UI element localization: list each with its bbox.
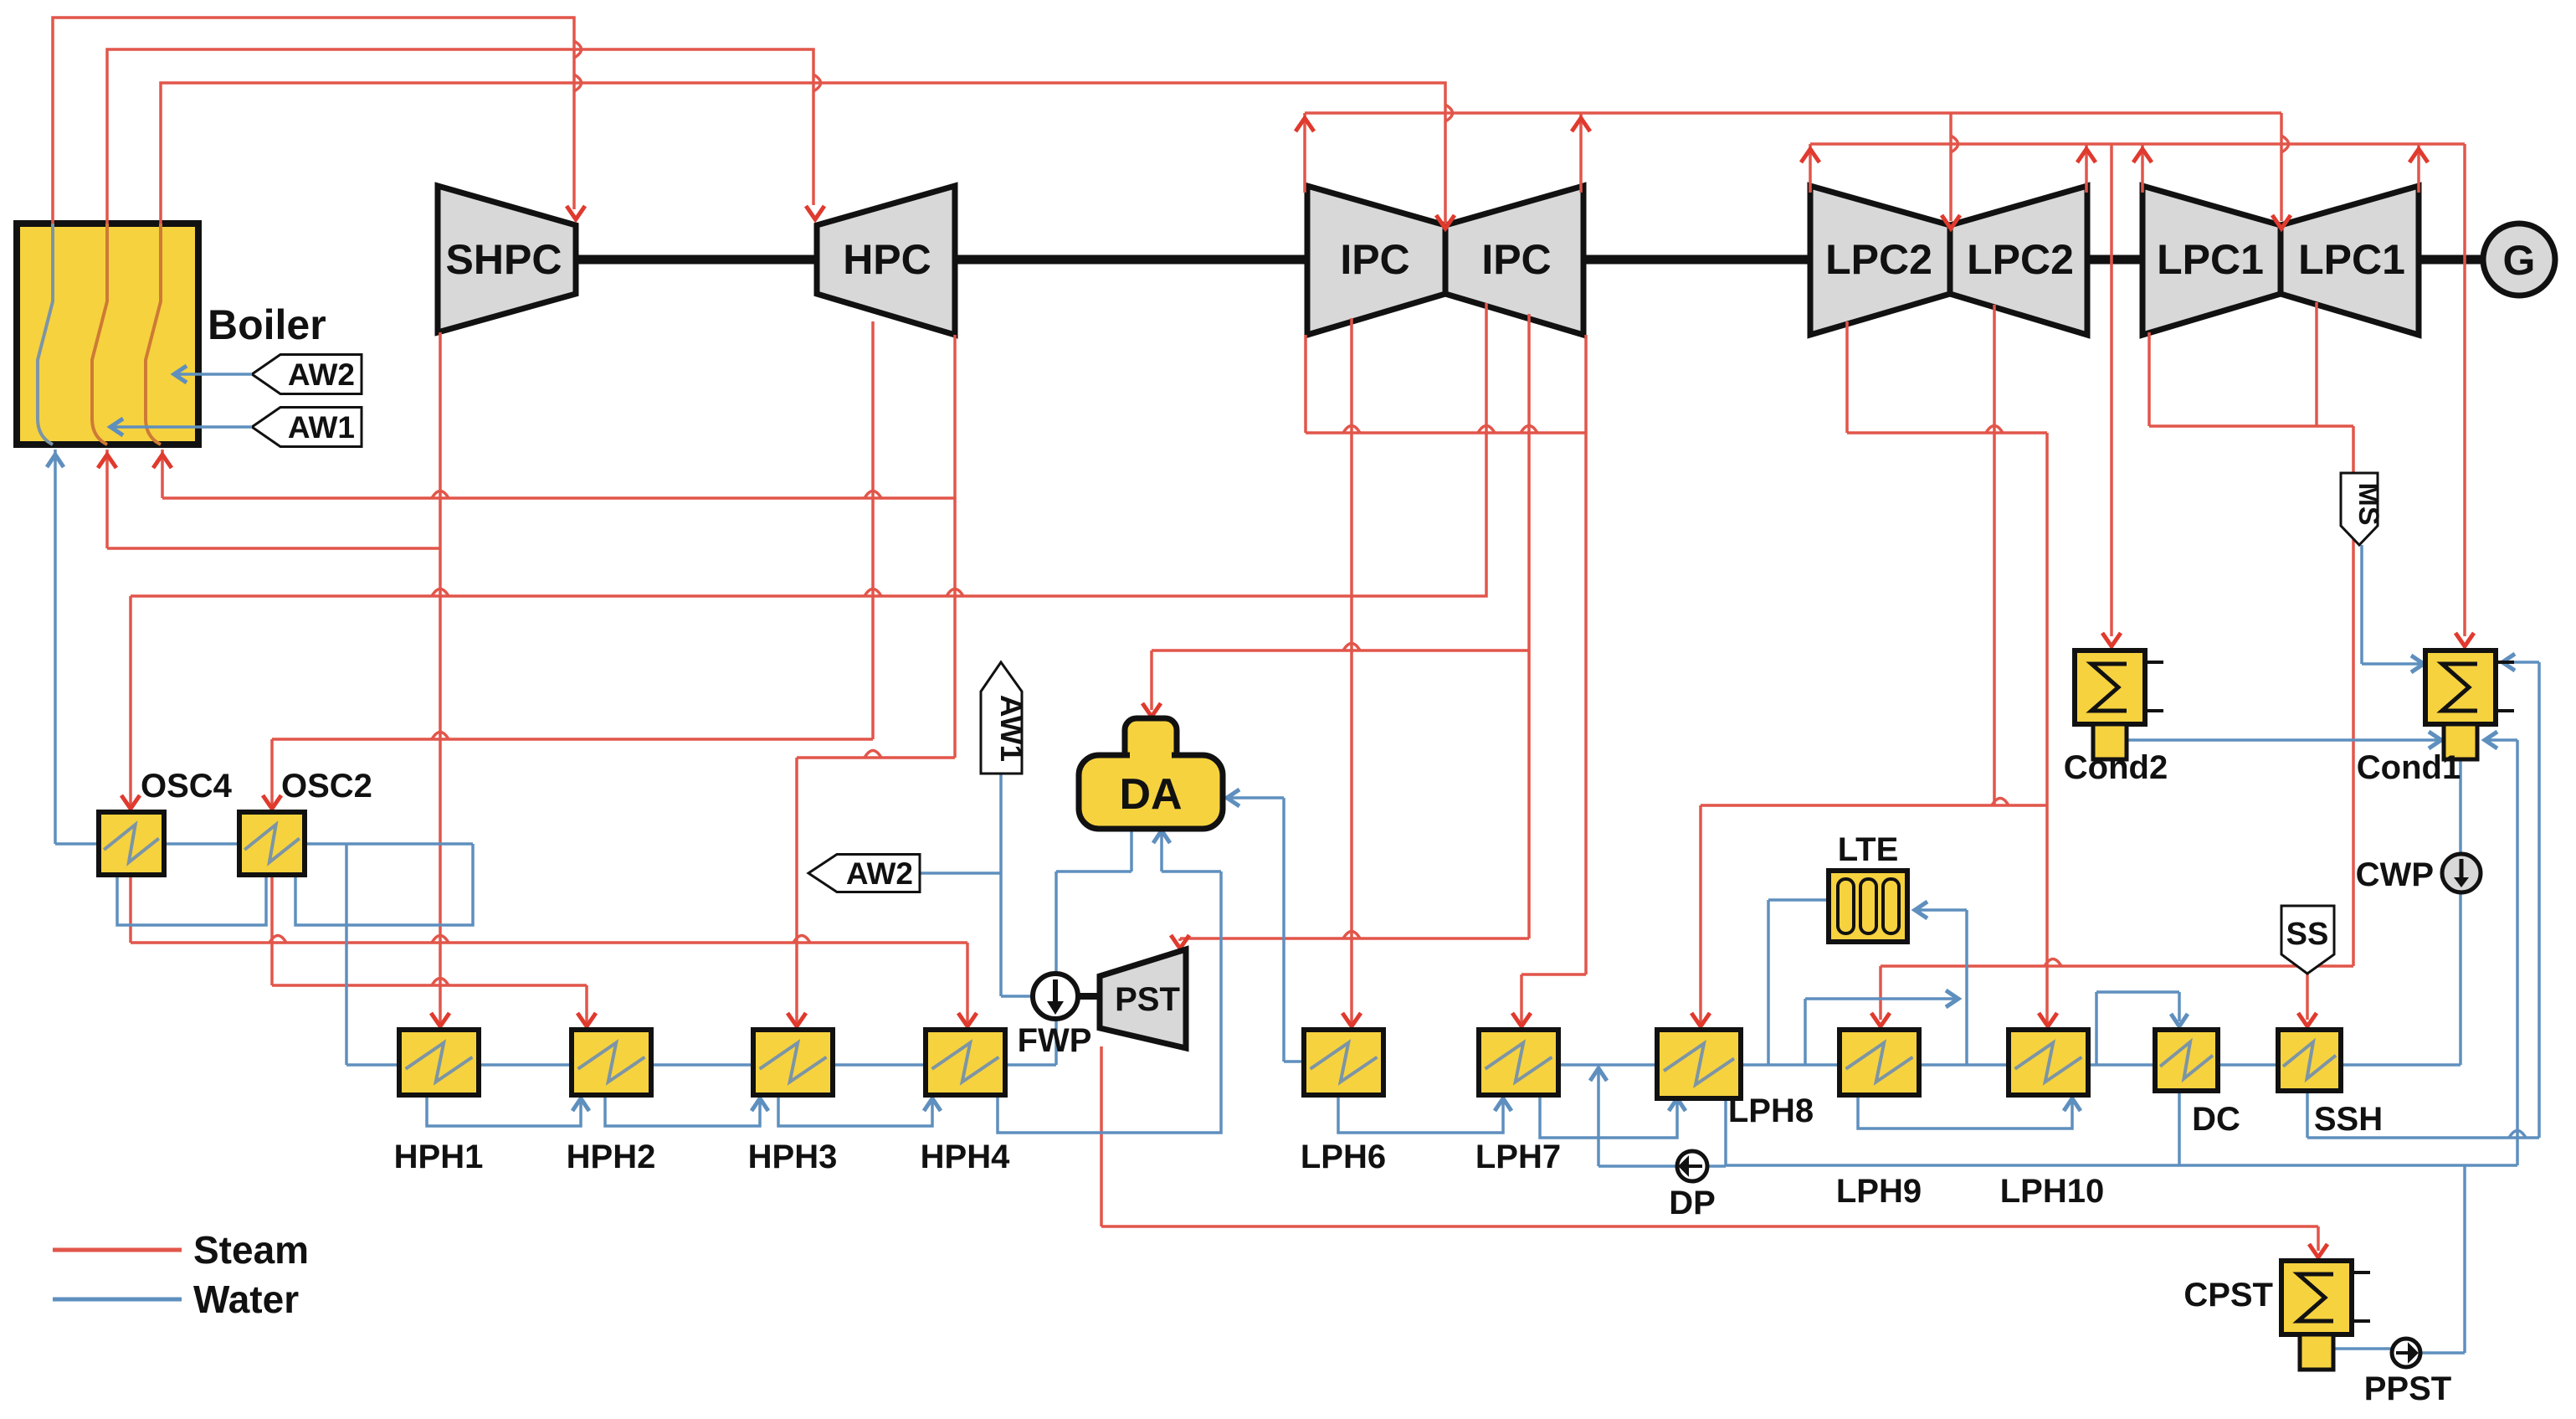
tag AW1 vertical: [981, 662, 1029, 774]
tag AW1 boiler: [252, 408, 362, 447]
svg-text:LPH8: LPH8: [1728, 1093, 1814, 1129]
line hop: [2045, 959, 2061, 967]
FWP label: [1018, 1022, 1092, 1059]
wire HPC exhaust to HPH3: [797, 498, 955, 1023]
arrow into Cond2: [2102, 633, 2121, 646]
svg-text:Water: Water: [193, 1278, 299, 1321]
wire feedwater OSC row to boiler: [55, 450, 473, 1065]
wire CWP to Cond1: [2459, 756, 2462, 854]
line hop: [432, 589, 449, 597]
arrow into LPH10 bottom: [2064, 1098, 2081, 1111]
wire SSH drain to Cond1: [2307, 662, 2539, 1138]
arrow into LPH7 bottom: [1495, 1098, 1511, 1111]
arrow up LPC1 right: [2409, 149, 2428, 162]
arrow into LPH7: [1512, 1013, 1531, 1026]
heater HPH1: [399, 1030, 479, 1095]
heater LPH7: [1479, 1030, 1558, 1095]
arrow into LPC1 middle: [2272, 215, 2291, 229]
wire LPH10 DC SSH feed line: [2088, 892, 2461, 1065]
svg-text:LPC2: LPC2: [1825, 236, 1932, 283]
tag SS: [2281, 906, 2334, 974]
turbine IPC left: [1307, 186, 1445, 335]
line hop: [1445, 105, 1453, 121]
wire PST exhaust to CPST: [1101, 1046, 2318, 1251]
LPH6 label: [1301, 1139, 1386, 1175]
arrow into HPH2: [577, 1013, 596, 1026]
wire HPC exhaust to boiler: [162, 335, 955, 498]
wire HPH row feed line: [478, 1021, 1056, 1065]
heat exchanger LTE: [1829, 871, 1907, 942]
svg-text:SHPC: SHPC: [446, 236, 562, 283]
arrow into OSC2: [263, 795, 281, 809]
arrow into HPH3 bottom: [752, 1098, 768, 1111]
arrow up LPC1 left: [2133, 149, 2152, 162]
wire PPST discharge: [2420, 1165, 2465, 1353]
tag AW2 mid: [808, 855, 920, 892]
wire DC top loop: [2096, 992, 2179, 1065]
arrow up IPC left: [1296, 118, 1314, 131]
svg-text:DC: DC: [2192, 1101, 2240, 1138]
heater LPH10: [2009, 1030, 2088, 1095]
pump FWP: [1033, 974, 1078, 1019]
line hop: [432, 979, 449, 986]
turbine IPC right: [1445, 186, 1583, 335]
pump CWP: [2442, 854, 2481, 892]
wire HPH2 drain to HPH3: [605, 1095, 760, 1126]
wire IPC exhaust to LPH7: [1306, 335, 1586, 1023]
wire MS to Cond1: [2362, 545, 2420, 664]
arrow drain into DA bottom: [1153, 830, 1170, 843]
arrow feedwater into boiler: [47, 455, 64, 467]
arrow into LPH8: [1691, 1013, 1710, 1026]
heater HPH2: [572, 1030, 651, 1095]
wire CPST condensate to PPST: [2332, 1347, 2392, 1350]
boiler coil 3 (steam): [146, 224, 161, 445]
arrow DP into feed line: [1590, 1068, 1607, 1081]
arrow into Cond1: [2455, 633, 2474, 646]
line hop: [793, 936, 810, 943]
svg-text:MS: MS: [2353, 483, 2384, 526]
line hop: [865, 491, 881, 499]
arrow into HPH4 bottom: [924, 1098, 941, 1111]
arrow SSH drain into Cond1: [2502, 654, 2515, 671]
HPH3 label: [748, 1139, 838, 1175]
arrow into HPH2 bottom: [572, 1098, 589, 1111]
SSH label: [2314, 1101, 2383, 1138]
line hop: [813, 75, 821, 91]
arrow up LPC2 right: [2077, 149, 2096, 162]
wire HPC extraction to OSC2: [272, 321, 873, 805]
FWP PST shaft: [1078, 993, 1100, 1000]
wire SS to SSH: [2306, 974, 2309, 1020]
CWP label: [2356, 856, 2434, 893]
HPH4 label: [921, 1139, 1010, 1175]
heater LPH9: [1840, 1030, 1919, 1095]
wire IPC extraction to OSC4: [131, 303, 1486, 805]
wire SHPC exhaust to boiler and HPH1: [107, 332, 440, 1023]
wire reheat2 boiler to HPC: [107, 49, 813, 224]
svg-text:LPC2: LPC2: [1967, 236, 2074, 283]
line hop: [2509, 1131, 2526, 1139]
svg-text:DP: DP: [1669, 1185, 1716, 1221]
wire OSC2 underloop: [295, 844, 473, 925]
arrow into LPH6: [1342, 1013, 1361, 1026]
shaft: [576, 255, 2482, 265]
arrow into CPST: [2309, 1244, 2327, 1257]
svg-text:LPH7: LPH7: [1475, 1139, 1561, 1175]
heater OSC2: [239, 812, 305, 875]
line hop: [574, 75, 582, 91]
arrow up LPC2 left: [1801, 149, 1819, 162]
svg-text:HPH4: HPH4: [921, 1139, 1010, 1175]
LTE label: [1838, 831, 1899, 868]
generator G: [2483, 224, 2555, 296]
line hop: [1992, 799, 2009, 806]
arrow AW2 into boiler: [174, 366, 187, 383]
LPH10 label: [2000, 1173, 2105, 1210]
wire LPH8 to LTE: [1742, 900, 1840, 1065]
svg-text:AW1: AW1: [994, 695, 1029, 762]
svg-text:HPC: HPC: [843, 236, 931, 283]
boiler coil 2 (steam): [92, 224, 107, 445]
wire IPC extraction to LPH6: [1350, 318, 1353, 1023]
line hop: [947, 589, 963, 597]
svg-text:IPC: IPC: [1340, 236, 1409, 283]
heater LPH6: [1304, 1030, 1383, 1095]
legend steam: [53, 1228, 309, 1272]
legend water: [53, 1278, 299, 1321]
svg-text:Cond1: Cond1: [2357, 749, 2461, 786]
turbine LPC1 left: [2142, 186, 2281, 335]
tag MS: [2341, 473, 2384, 545]
wire HPH1 drain to HPH2: [427, 1095, 581, 1126]
wire HPH4 drain to DA: [998, 834, 1221, 1133]
wire LPH8 drain to DP: [1708, 1098, 1726, 1166]
heater HPH3: [753, 1030, 833, 1095]
svg-text:SSH: SSH: [2314, 1101, 2383, 1138]
heater OSC4: [99, 812, 164, 875]
arrow into PST: [1171, 935, 1189, 949]
wire AW2 to boiler: [177, 373, 252, 376]
svg-text:IPC: IPC: [1481, 236, 1551, 283]
arrow into HPH4: [958, 1013, 977, 1026]
arrow AW1 into boiler: [110, 419, 123, 435]
boiler: [17, 224, 198, 445]
svg-text:AW2: AW2: [846, 856, 913, 891]
arrow into HPH3: [788, 1013, 806, 1026]
line hop: [1951, 136, 1958, 152]
wire LPC2 extraction to LPH8: [1701, 305, 2048, 1023]
DC label: [2192, 1101, 2240, 1138]
heater HPH4: [926, 1030, 1005, 1095]
arrow MS into Cond1: [2411, 656, 2424, 672]
svg-text:SS: SS: [2286, 917, 2329, 952]
line hop: [574, 41, 582, 58]
boiler coil 1 (water): [38, 224, 53, 445]
line hop: [1521, 426, 1537, 434]
line hop: [432, 936, 449, 943]
arrow into DC top: [2171, 1014, 2188, 1026]
wire OSC2 drain to HPH2: [272, 875, 587, 1023]
condenser Cond2: [2075, 650, 2163, 759]
wire AW1 to boiler: [114, 425, 252, 429]
Cond2 label: [2064, 749, 2168, 786]
turbine SHPC: [438, 186, 576, 332]
CPST label: [2183, 1277, 2273, 1314]
arrow into LPH9: [1871, 1013, 1890, 1026]
arrow cold reheat 1 into boiler: [98, 455, 116, 468]
turbine LPC2 right: [1950, 186, 2087, 335]
svg-text:PST: PST: [1115, 981, 1180, 1018]
wire HPH3 drain to HPH4: [778, 1095, 932, 1126]
wire main steam boiler to SHPC: [53, 18, 574, 224]
wire LPH7 LPH8 feed segment: [1558, 1063, 1657, 1067]
wire condensate return to Cond1 hotwell: [2179, 740, 2517, 1165]
arrow into DA: [1142, 703, 1161, 717]
HPH2 label: [567, 1139, 656, 1175]
arrow cold reheat 2 into boiler: [153, 455, 172, 468]
wire IPC extraction to DA and PST: [1152, 314, 1529, 941]
wire LPC2 extraction to LPH10: [1847, 321, 2047, 1023]
heater LPH8: [1657, 1030, 1741, 1098]
svg-text:AW2: AW2: [288, 357, 355, 392]
condenser CPST: [2281, 1261, 2370, 1370]
wire LPH7 drain to LPH8: [1540, 1095, 1677, 1138]
svg-text:Boiler: Boiler: [208, 301, 326, 348]
LPH7 label: [1475, 1139, 1561, 1175]
wire OSC4 drain to HPH4: [131, 875, 967, 1023]
line hop: [865, 751, 881, 758]
turbine HPC: [817, 186, 955, 335]
wire IPC exhaust header to LPC middles: [1305, 113, 2281, 221]
heater DC: [2155, 1030, 2218, 1091]
turbine LPC1 right: [2281, 186, 2419, 335]
arrow into LPC2 middle: [1942, 215, 1960, 229]
line hop: [865, 589, 881, 597]
arrow into SHPC: [567, 206, 585, 219]
Cond1 label: [2357, 749, 2461, 786]
arrow into SSH: [2298, 1013, 2317, 1026]
svg-text:LTE: LTE: [1838, 831, 1899, 868]
wire OSC4 underloop: [117, 875, 266, 925]
line hop: [432, 491, 449, 499]
arrow return into Cond1 hotwell: [2485, 732, 2497, 748]
pump PPST: [2392, 1339, 2420, 1367]
wire LPH6 drain to LPH7: [1338, 1095, 1503, 1133]
deaerator DA: [1079, 718, 1223, 829]
wire LPC1 extractions to LPH9: [1881, 302, 2353, 1020]
arrow into DA right: [1227, 789, 1239, 806]
line hop: [432, 733, 449, 740]
arrow into LTE right: [1915, 902, 1927, 918]
arrow into IPC middle: [1436, 215, 1455, 229]
boiler label: [208, 301, 326, 348]
OSC4 label: [141, 768, 233, 805]
pump DP: [1677, 1151, 1707, 1181]
wire AW1 AW2 connection: [920, 774, 1031, 996]
svg-text:OSC2: OSC2: [281, 768, 372, 805]
turbine LPC2 left: [1810, 186, 1950, 335]
wire DC drain to DP: [1726, 1091, 2179, 1165]
svg-text:CPST: CPST: [2183, 1277, 2273, 1314]
svg-text:FWP: FWP: [1018, 1022, 1092, 1059]
wire LP exhaust header to condensers: [1810, 144, 2465, 636]
svg-text:HPH1: HPH1: [394, 1139, 484, 1175]
tag AW2 boiler: [252, 355, 362, 394]
line hop: [1986, 426, 2003, 434]
arrow into OSC4: [121, 795, 140, 809]
wire LPH6 to DA: [1230, 798, 1304, 1062]
line hop: [269, 936, 286, 943]
arrow into HPC: [806, 206, 824, 219]
wire Cond2 condensate to Cond1: [2127, 738, 2438, 742]
svg-text:DA: DA: [1119, 770, 1182, 819]
svg-text:CWP: CWP: [2356, 856, 2434, 893]
svg-text:Steam: Steam: [193, 1228, 309, 1272]
OSC2 label: [281, 768, 372, 805]
condenser Cond1: [2425, 650, 2514, 759]
LPH9 label: [1836, 1173, 1922, 1210]
arrow into LPH10: [2039, 1013, 2057, 1026]
wire DP discharge: [1598, 1072, 1678, 1166]
svg-text:Cond2: Cond2: [2064, 749, 2168, 786]
svg-text:LPC1: LPC1: [2298, 236, 2405, 283]
line hop: [1343, 426, 1360, 434]
line hop: [1478, 426, 1495, 434]
DP label: [1669, 1185, 1716, 1221]
line hop: [2281, 136, 2289, 152]
line hop: [1343, 644, 1360, 651]
svg-text:AW1: AW1: [288, 410, 355, 445]
line hop: [1343, 932, 1360, 939]
heater SSH: [2278, 1030, 2341, 1091]
svg-text:OSC4: OSC4: [141, 768, 233, 805]
HPH1 label: [394, 1139, 484, 1175]
arrow into HPH1: [431, 1013, 449, 1026]
svg-text:LPH10: LPH10: [2000, 1173, 2105, 1210]
svg-text:LPH6: LPH6: [1301, 1139, 1386, 1175]
wire DA to FWP: [1056, 829, 1131, 972]
PPST label: [2364, 1370, 2451, 1407]
arrow into Cond1 hotwell: [2429, 732, 2441, 748]
wire LPH9 feed segment: [1919, 1063, 2009, 1067]
wire LTE bypass: [1805, 999, 1955, 1065]
wire LPH9 drain to LPH10: [1858, 1095, 2072, 1129]
wire hot reheat boiler to IPC: [161, 83, 1445, 224]
svg-text:HPH3: HPH3: [748, 1139, 838, 1175]
svg-text:G: G: [2503, 237, 2536, 284]
LPH8 label: [1728, 1093, 1814, 1129]
svg-text:PPST: PPST: [2364, 1370, 2451, 1407]
svg-text:HPH2: HPH2: [567, 1139, 656, 1175]
svg-text:LPC1: LPC1: [2157, 236, 2264, 283]
wire LTE to LPH9 gap: [1918, 910, 1967, 1065]
arrow into LPH8 bottom: [1669, 1098, 1686, 1111]
turbine PST: [1100, 949, 1186, 1048]
arrow bypass join: [1946, 990, 1958, 1007]
svg-text:LPH9: LPH9: [1836, 1173, 1922, 1210]
arrow up IPC right: [1572, 118, 1590, 131]
